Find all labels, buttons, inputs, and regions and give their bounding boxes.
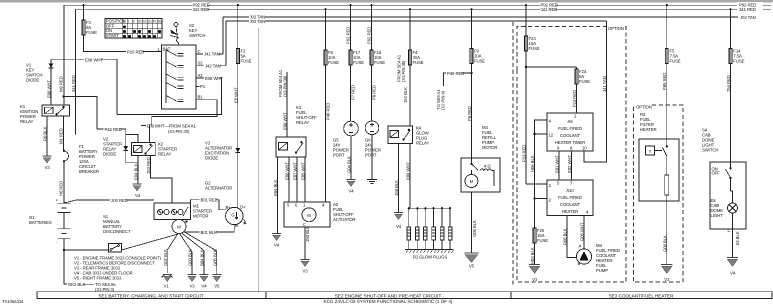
svg-text:SE1 BATTERY, CHARGING, AND STA: SE1 BATTERY, CHARGING, AND START CIRCUIT [98, 293, 203, 298]
svg-text:G1: G1 [148, 20, 152, 24]
svg-text:P1: P1 [200, 84, 206, 89]
key switch S2 symbol [174, 23, 178, 27]
svg-text:4 Ω: 4 Ω [484, 164, 491, 169]
wire B01 BLK motor to alternator bottom [183, 231, 234, 233]
svg-text:M1 RED: M1 RED [59, 128, 64, 144]
wire P49 RED branch [470, 72, 472, 74]
bus line 1 P92 RED [64, 4, 771, 6]
svg-text:V3: V3 [532, 277, 538, 282]
svg-text:B: B [123, 20, 125, 24]
wires K3 to actuator [288, 157, 290, 202]
wire K3 feed from SE4 [286, 72, 288, 137]
svg-text:BAT: BAT [163, 47, 171, 52]
svg-text:P8 RED: P8 RED [467, 106, 472, 121]
svg-text:P40 RED: P40 RED [326, 103, 331, 120]
svg-text:(X3 PIN 30): (X3 PIN 30) [168, 129, 190, 134]
svg-text:M: M [177, 225, 181, 230]
diode V3 alternator excitation diode [235, 148, 240, 152]
svg-text:C: C [198, 49, 201, 54]
svg-text:V5: V5 [469, 264, 475, 269]
bus line 4 J02 TAN [226, 20, 607, 22]
svg-text:PUMP: PUMP [596, 268, 608, 273]
svg-text:V4: V4 [201, 284, 207, 289]
fuse F18 tap [370, 4, 372, 6]
fuse F14 tap [729, 8, 731, 10]
fuse F17 tap [349, 4, 351, 6]
ground V4 [200, 275, 209, 282]
svg-text:SWITCH: SWITCH [702, 148, 718, 153]
relay K4 glow plug relay [388, 126, 413, 144]
wire G6 to chassis ground [371, 135, 373, 180]
power port G5 [344, 121, 359, 136]
svg-text:FUSE: FUSE [529, 46, 540, 51]
svg-text:J02 TAN: J02 TAN [740, 15, 756, 20]
svg-text:M: M [307, 213, 311, 218]
svg-text:BATTERIES: BATTERIES [29, 220, 52, 225]
relay K3 fuel shut-off relay [276, 137, 306, 157]
svg-text:FUSE: FUSE [413, 60, 424, 65]
svg-text:S2: S2 [198, 61, 204, 66]
svg-text:C: C [303, 222, 306, 227]
tan label right end [738, 15, 763, 20]
bus line 3 J02 TAN [223, 16, 762, 18]
svg-text:341 RED: 341 RED [71, 75, 76, 92]
svg-text:A9: A9 [567, 119, 573, 124]
svg-text:DIODE: DIODE [205, 156, 218, 161]
svg-text:J02 TAN: J02 TAN [250, 19, 266, 24]
svg-text:V3: V3 [302, 269, 308, 274]
ground V1 special [162, 274, 173, 277]
svg-text:E08 WHT—FROM SE4 A1: E08 WHT—FROM SE4 A1 [147, 124, 197, 129]
option dashed box A9/A10 [517, 27, 626, 282]
wire E08 WHT FROM SE4 text [141, 125, 146, 127]
svg-text:152 BLK: 152 BLK [403, 87, 408, 103]
svg-text:754 RED: 754 RED [726, 75, 731, 92]
key switch contacts [166, 50, 184, 104]
svg-text:(X2 PIN 4): (X2 PIN 4) [441, 90, 446, 110]
switch contact inside R2 [666, 139, 668, 146]
svg-text:H6 RED: H6 RED [59, 181, 64, 196]
svg-text:E09 WHT: E09 WHT [406, 162, 411, 180]
svg-text:V5: V5 [214, 284, 220, 289]
ground V4 under K2 [133, 184, 142, 191]
svg-text:V4: V4 [348, 189, 354, 194]
fuse F2 tap [237, 4, 239, 6]
svg-text:MOTOR: MOTOR [193, 214, 208, 219]
svg-text:ACTUATOR: ACTUATOR [333, 217, 355, 222]
svg-text:V1: V1 [163, 284, 169, 289]
svg-text:FUSE: FUSE [328, 60, 339, 65]
tan label left pair [249, 14, 265, 24]
svg-text:DISCONNECT: DISCONNECT [103, 229, 131, 234]
svg-text:FUSE: FUSE [353, 60, 364, 65]
bus line 2 341 RED [76, 8, 772, 10]
svg-text:V3: V3 [189, 284, 195, 289]
wire F25 to ground V3 [534, 243, 536, 265]
ground V4 under K3 [272, 234, 281, 241]
ground V5 [212, 275, 221, 282]
battery G1 [58, 203, 71, 250]
wire E08 WHT horizontal [51, 59, 117, 114]
fuse F18 [370, 50, 373, 65]
wire F23 branch to A10 pin3 [526, 183, 547, 185]
svg-text:DIODE: DIODE [103, 152, 116, 157]
svg-text:E06 WHT: E06 WHT [285, 162, 290, 180]
svg-text:V4: V4 [135, 193, 141, 198]
fuse F23 [524, 36, 527, 51]
wire K3 to ground V4 [277, 157, 279, 234]
svg-text:MOTOR: MOTOR [482, 145, 497, 150]
svg-text:R0 BLK: R0 BLK [43, 127, 48, 141]
svg-text:HEATER: HEATER [640, 127, 657, 132]
svg-text:DIODE: DIODE [26, 78, 39, 83]
relay K1 ignition power relay [42, 105, 70, 116]
svg-text:E05 WHT: E05 WHT [301, 162, 306, 180]
svg-text:341 RED: 341 RED [541, 7, 558, 12]
fuse F2 [236, 49, 239, 64]
top window edge gray strip [0, 0, 773, 2]
svg-text:BREAKER: BREAKER [79, 169, 99, 174]
wire B01 RED starter to alternator [191, 200, 226, 210]
wire P8 RED [371, 65, 373, 121]
wire R2 to ground V3 [666, 201, 668, 265]
svg-text:G05 WHT: G05 WHT [580, 222, 585, 241]
wire F4 to K4 [409, 65, 411, 126]
svg-text:G04 BLK: G04 BLK [347, 156, 352, 173]
svg-text:HEATER: HEATER [562, 209, 579, 214]
switch S1 manual battery disconnect [64, 249, 109, 251]
motor M3 fuel refill pump box [461, 158, 500, 192]
wire S1 to starter motor diagonal [122, 234, 178, 250]
wire A9 pin10 to J41 TAN bus [584, 21, 607, 162]
fuse F8 tap [324, 8, 326, 10]
node battery negative junction [63, 249, 65, 251]
svg-text:V3: V3 [44, 165, 50, 170]
glow plug ground bar with hatching [405, 249, 454, 251]
key terminal S2 wire J42 TAN [196, 65, 226, 67]
svg-text:P10 RED: P10 RED [127, 50, 144, 55]
wire E8 to ground V4 [732, 213, 734, 258]
svg-text:G03 BLK: G03 BLK [188, 249, 193, 266]
svg-text:300 RED: 300 RED [111, 198, 128, 203]
wire battery main vertical x64 [63, 5, 65, 105]
svg-text:TX1066334: TX1066334 [2, 299, 24, 304]
wire P7 RED [350, 65, 352, 122]
svg-text:E5 WHT: E5 WHT [233, 87, 238, 103]
key switch position table [105, 19, 162, 39]
svg-text:GK2 BLK: GK2 BLK [68, 282, 85, 287]
svg-text:E08 WHT: E08 WHT [47, 80, 52, 98]
fuse F4 tap [409, 8, 411, 10]
wire K4 coil to ground V4 [398, 144, 400, 213]
fuse F4 [408, 50, 411, 65]
wire M3 to ground V5 [470, 192, 472, 253]
svg-text:G05 BLK: G05 BLK [472, 220, 477, 237]
pump M4 fuel fired coolant heater fuel pump [576, 249, 591, 264]
ground V3 [188, 275, 197, 282]
wire K4 to glow plug bus [409, 144, 411, 209]
fuse F5 tap [666, 4, 668, 6]
wire F5 to R2 heater [666, 64, 668, 140]
fuse F3 tap [82, 4, 84, 6]
svg-text:P85 RED: P85 RED [662, 73, 667, 90]
svg-text:P49 RED: P49 RED [447, 71, 464, 76]
bus label pair mid [540, 2, 558, 12]
wire K2 coil bottom to ground V4 [137, 156, 139, 184]
key switch S2 box [162, 45, 197, 109]
svg-text:A2: A2 [143, 20, 147, 24]
alternator G2 circle [226, 207, 243, 224]
svg-text:P23 RED: P23 RED [522, 145, 527, 162]
svg-text:P8 RED: P8 RED [372, 85, 377, 100]
svg-text:SWITCH: SWITCH [189, 33, 205, 38]
wire F24 RED to A9 pin1 [576, 84, 578, 113]
wire junction to P42 RED drop [64, 97, 98, 129]
svg-text:V4: V4 [396, 224, 402, 229]
fuse F9 tap [470, 8, 472, 10]
wire battery negative down GK2 BLK [64, 250, 67, 284]
svg-text:FUEL FIRED: FUEL FIRED [558, 126, 582, 131]
glow plug bus [409, 207, 450, 209]
svg-text:A2: A2 [198, 73, 204, 78]
svg-text:P42 RED: P42 RED [105, 127, 122, 132]
svg-text:OPTION: OPTION [608, 26, 624, 31]
title bar [37, 292, 772, 299]
svg-text:FUSE: FUSE [86, 30, 97, 35]
fuse F5 [665, 49, 668, 64]
svg-text:G08 BLK: G08 BLK [662, 235, 667, 252]
wire actuator to ground V3 [304, 227, 306, 260]
ground V5 big under M3 [465, 252, 479, 254]
svg-text:RELAY: RELAY [158, 152, 172, 157]
fuse F23 tap [525, 4, 527, 6]
svg-text:V5 - RIGHT FRAME 3033: V5 - RIGHT FRAME 3033 [74, 276, 122, 281]
svg-text:04 BLK: 04 BLK [735, 231, 740, 245]
svg-text:C: C [728, 228, 731, 233]
svg-text:E04 BLK: E04 BLK [273, 180, 278, 196]
svg-text:S2: S2 [138, 20, 142, 24]
key terminal P1 stub [196, 85, 200, 87]
svg-text:G02 BLK: G02 BLK [163, 249, 168, 266]
svg-text:E04 BLK: E04 BLK [134, 164, 139, 180]
svg-text:KCG 24VLC-03 SYSTEM FUNCTIONAL: KCG 24VLC-03 SYSTEM FUNCTIONAL SCHEMATIC… [324, 299, 453, 304]
diode V1 key switch diode [50, 59, 52, 105]
motor M1 circle [172, 220, 186, 234]
svg-text:FUSE: FUSE [733, 59, 744, 64]
svg-text:H06 BLK: H06 BLK [530, 155, 535, 172]
svg-text:OFF: OFF [712, 171, 721, 176]
wires A9 pin9/8 to A10 [558, 151, 560, 180]
svg-text:E02 WHT: E02 WHT [567, 155, 572, 173]
svg-text:153 RED: 153 RED [146, 157, 151, 174]
wire A10 pin to M4 pump [583, 216, 585, 249]
svg-text:FUSE: FUSE [579, 79, 590, 84]
svg-text:B01 RED: B01 RED [201, 198, 218, 203]
wire E5 WHT F2 to diode [237, 64, 239, 149]
wire F14 to S4 [730, 64, 732, 163]
wire F3 to key switch P10 RED [84, 35, 162, 52]
svg-text:R1 GLOW PLUGS: R1 GLOW PLUGS [413, 255, 448, 260]
timer A9 fuel fired coolant heater timer [547, 113, 593, 151]
svg-text:B+: B+ [226, 205, 232, 210]
svg-text:B: B [578, 261, 581, 266]
svg-text:E01 WHT: E01 WHT [555, 155, 560, 173]
svg-text:B-: B- [235, 223, 240, 228]
heater A10 fuel fired coolant heater [547, 180, 593, 216]
bus label pair right end [737, 2, 763, 12]
svg-text:A10: A10 [566, 188, 574, 193]
svg-text:B04 BLK: B04 BLK [200, 250, 205, 266]
wire H06 BLK down to A10 pin2 [535, 134, 547, 199]
svg-text:H03 BLK: H03 BLK [530, 247, 535, 264]
svg-text:V4: V4 [274, 243, 280, 248]
svg-text:R06 BLK: R06 BLK [562, 228, 567, 245]
starter motor M1 solenoid box [154, 203, 191, 220]
svg-text:PORT: PORT [365, 153, 377, 158]
wire branch to F24 [526, 66, 577, 68]
heater R2 inner box [639, 139, 679, 201]
actuator A2 fuel shut-off actuator [284, 202, 330, 227]
svg-text:D+: D+ [240, 205, 246, 210]
svg-text:COOLANT: COOLANT [560, 202, 581, 207]
section divider SE2/SE3 dashed [512, 22, 514, 285]
lamp E8 cab dome light [728, 203, 738, 213]
diode V2 starter relay diode [126, 135, 138, 163]
svg-text:F24 RED: F24 RED [572, 90, 577, 107]
svg-text:V4: V4 [730, 271, 736, 276]
key terminal C wire J41 TAN [196, 53, 223, 55]
svg-text:158 BLK: 158 BLK [394, 180, 399, 196]
relay K2 starter relay [132, 143, 156, 156]
node junction x63.5 y96.6 [62, 95, 64, 97]
svg-text:E08 WHT: E08 WHT [205, 76, 223, 81]
svg-text:V3: V3 [664, 277, 670, 282]
wire F9 to M3 [470, 64, 472, 159]
svg-text:J41 TAN: J41 TAN [204, 52, 220, 57]
svg-text:R1: R1 [158, 20, 162, 24]
svg-text:RELAY: RELAY [416, 141, 430, 146]
svg-text:PORT: PORT [333, 153, 345, 158]
wire M4 B return to A10 [567, 216, 576, 258]
wire K1 coil to ground [46, 116, 48, 156]
svg-text:G05 BLK: G05 BLK [212, 249, 217, 266]
wire F23 down [525, 51, 527, 184]
svg-text:P92 RED: P92 RED [366, 27, 371, 44]
wire H06 BLK to F25 [534, 199, 536, 229]
svg-text:B1: B1 [198, 95, 204, 100]
thermostat T symbol [646, 146, 655, 155]
svg-text:M9 RED: M9 RED [59, 76, 64, 92]
svg-text:ALTERNATOR: ALTERNATOR [205, 186, 232, 191]
svg-text:12: 12 [549, 133, 554, 138]
wire 341 RED drop x75.5 to key B1 feed [75, 9, 77, 134]
svg-text:150 BLK: 150 BLK [305, 226, 310, 242]
svg-text:RELAY: RELAY [20, 119, 34, 124]
svg-text:SE3 COOLANT/FUEL HEATER: SE3 COOLANT/FUEL HEATER [609, 293, 674, 298]
fuse F24 [575, 69, 578, 84]
svg-text:COOLANT: COOLANT [560, 133, 581, 138]
svg-text:FUSE: FUSE [474, 59, 485, 64]
fuse F3 [82, 20, 85, 35]
wire F40 RED to actuator pin 4 [325, 65, 327, 202]
option dashed box R2 [634, 105, 684, 282]
wire G5 to ground V4 [350, 136, 352, 180]
breaker F1 symbol [63, 150, 65, 152]
key terminal A2 wire E08 WHT [117, 78, 222, 115]
fuse F9 [470, 49, 473, 64]
svg-text:1: 1 [128, 20, 130, 24]
svg-text:FUSE: FUSE [241, 59, 252, 64]
svg-text:E08 WHT: E08 WHT [85, 57, 103, 62]
svg-text:SE2 ENGINE SHUT-OFF AND PRE-HE: SE2 ENGINE SHUT-OFF AND PRE-HEAT CIRCUIT [335, 293, 442, 298]
svg-text:START: START [106, 33, 120, 38]
power port G6 [365, 121, 379, 135]
fuse F17 [349, 50, 352, 65]
resistor element inside R2 [666, 156, 668, 175]
glow plugs R1 resistors [409, 208, 450, 249]
svg-text:P92 RED: P92 RED [345, 27, 350, 44]
wire A9 pins 4/12 jumper [535, 120, 547, 134]
svg-text:FUSE: FUSE [374, 60, 385, 65]
wire P42 RED to K2 [97, 129, 138, 143]
svg-text:FUSE: FUSE [670, 59, 681, 64]
svg-text:10: 10 [582, 146, 587, 151]
svg-text:M: M [470, 179, 474, 184]
section divider SE1/SE2 [258, 28, 260, 292]
battery positive rail 300 RED [64, 200, 154, 203]
svg-text:E08 WHT: E08 WHT [283, 112, 288, 130]
svg-text:J42 TAN: J42 TAN [205, 64, 221, 69]
svg-text:341 RED: 341 RED [193, 7, 210, 12]
fuse F14 [729, 49, 732, 64]
svg-text:OPTION: OPTION [636, 105, 652, 110]
svg-text:J41 TAN: J41 TAN [602, 76, 607, 92]
svg-text:FUEL FIRED: FUEL FIRED [558, 195, 582, 200]
fuse F25 [533, 228, 536, 243]
svg-text:(X3 PIN 30): (X3 PIN 30) [283, 75, 288, 97]
svg-text:E07 WHT: E07 WHT [293, 162, 298, 180]
svg-text:FUSE: FUSE [537, 238, 548, 243]
bus label pair left [192, 2, 210, 12]
svg-text:RELAY: RELAY [296, 120, 310, 125]
svg-text:B01 BLK: B01 BLK [201, 230, 217, 235]
svg-text:P7 RED: P7 RED [351, 85, 356, 100]
svg-text:341 RED: 341 RED [739, 7, 756, 12]
starter motor fan-out wires to grounds [167, 233, 178, 250]
svg-text:·: · [57, 222, 58, 227]
fuse F8 [324, 50, 327, 65]
svg-text:HEATER TIMER: HEATER TIMER [555, 140, 585, 145]
svg-text:LIGHT: LIGHT [711, 213, 724, 218]
svg-text:A: A [579, 244, 582, 249]
svg-text:(X3 PIN 30): (X3 PIN 30) [401, 60, 406, 82]
wire K2 contact to starter solenoid [151, 156, 172, 203]
svg-text:P1: P1 [153, 20, 157, 24]
svg-text:(X3 PIN 3): (X3 PIN 3) [95, 287, 115, 292]
ground V3 under K1 [43, 156, 52, 163]
switch S4 / lamp E8 box [710, 162, 746, 229]
